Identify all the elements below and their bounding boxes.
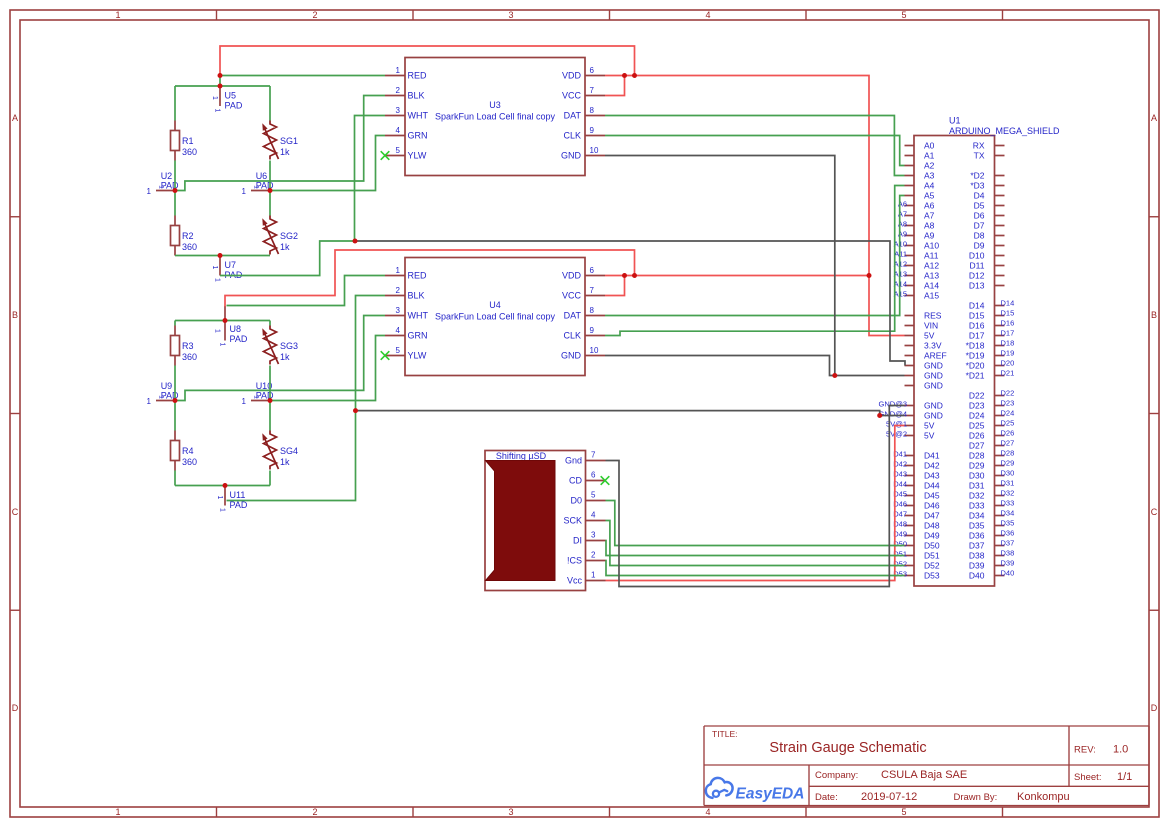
svg-text:D29: D29 — [1001, 459, 1015, 468]
svg-text:D8: D8 — [974, 231, 985, 241]
svg-text:5V: 5V — [924, 421, 935, 431]
wire green: bridge1 right leg upper (SG1) — [269, 86, 271, 191]
op-amp style block U4: SparkFun Load Cell — [385, 258, 605, 376]
svg-text:D24: D24 — [1001, 409, 1015, 418]
svg-text:5: 5 — [901, 10, 906, 20]
U? Shifting uSD card module — [485, 451, 606, 591]
wire green: uSD SCK to shield D52 — [606, 521, 905, 566]
svg-text:7: 7 — [591, 451, 596, 460]
svg-text:D38: D38 — [969, 551, 985, 561]
svg-text:GND@4: GND@4 — [879, 410, 907, 419]
svg-text:D31: D31 — [1001, 479, 1015, 488]
svg-text:A6: A6 — [924, 201, 935, 211]
svg-text:VIN: VIN — [924, 321, 938, 331]
svg-text:CSULA Baja SAE: CSULA Baja SAE — [881, 769, 967, 781]
pin 4 GRN — [385, 335, 405, 337]
wire green: bridge2 left leg lower (R4) — [174, 401, 176, 486]
wire red: top bus U5 to U3 VDD — [220, 46, 635, 76]
svg-text:1: 1 — [211, 266, 218, 270]
uSD pin 6 CD — [586, 480, 606, 482]
strain gauge SG1 (variable resistor) — [262, 121, 298, 160]
svg-text:D52: D52 — [924, 561, 940, 571]
svg-text:360: 360 — [182, 147, 197, 157]
wire green: bridge2 right leg upper (SG3) — [269, 321, 271, 401]
svg-text:D19: D19 — [1001, 349, 1015, 358]
svg-text:D6: D6 — [974, 211, 985, 221]
svg-text:U5: U5 — [225, 91, 237, 101]
svg-text:!CS: !CS — [567, 556, 582, 566]
svg-text:PAD: PAD — [230, 334, 248, 344]
wire green: uSD !CS to shield D53 — [606, 561, 905, 576]
svg-text:1.0: 1.0 — [1113, 744, 1128, 756]
wire green: U4 DAT to shield A5 — [605, 196, 905, 316]
svg-text:5: 5 — [396, 146, 401, 155]
svg-text:A: A — [1151, 113, 1157, 123]
wire green: U5 node to U3 RED pin — [220, 75, 385, 77]
uSD pin 4 SCK — [586, 520, 606, 522]
pad U10 — [242, 381, 274, 406]
junction dots — [218, 73, 223, 78]
svg-text:Date:: Date: — [815, 792, 838, 803]
svg-text:Shifting µSD: Shifting µSD — [496, 451, 547, 461]
svg-text:6: 6 — [590, 66, 595, 75]
svg-text:VDD: VDD — [562, 71, 582, 81]
wire gray: U4 BLK net to shield GND@4 — [356, 411, 905, 416]
svg-text:SparkFun Load Cell final copy: SparkFun Load Cell final copy — [435, 112, 556, 122]
wire gray: U3 GND down to GND junction — [605, 156, 835, 376]
svg-text:D42: D42 — [924, 461, 940, 471]
svg-text:R2: R2 — [182, 231, 194, 241]
svg-text:D40: D40 — [969, 571, 985, 581]
svg-text:A3: A3 — [924, 171, 935, 181]
svg-text:3: 3 — [591, 531, 596, 540]
svg-text:A9: A9 — [924, 231, 935, 241]
svg-text:RES: RES — [924, 311, 942, 321]
svg-text:2: 2 — [591, 551, 596, 560]
svg-text:D49: D49 — [924, 531, 940, 541]
svg-text:3.3V: 3.3V — [924, 341, 942, 351]
pin 1 RED — [385, 275, 405, 277]
svg-text:3: 3 — [396, 106, 401, 115]
svg-text:360: 360 — [182, 457, 197, 467]
wire green: U3 CLK to shield A2 — [605, 136, 905, 166]
svg-text:R4: R4 — [182, 446, 194, 456]
wire green: U3 DAT to shield A3 — [605, 116, 905, 176]
svg-text:D17: D17 — [1001, 329, 1015, 338]
svg-text:A11: A11 — [894, 250, 907, 259]
pin 7 VCC — [585, 295, 605, 297]
no-connect X on uSD CD pin — [601, 476, 610, 485]
svg-text:GND: GND — [924, 401, 943, 411]
svg-text:D11: D11 — [970, 261, 985, 271]
svg-text:R1: R1 — [182, 136, 194, 146]
wire green: uSD DI to shield D51 — [606, 541, 905, 556]
wire red: shield 5V@1 to uSD Vcc — [606, 426, 905, 581]
svg-text:D34: D34 — [969, 511, 985, 521]
svg-text:YLW: YLW — [408, 151, 427, 161]
wire red: U4 VCC join — [605, 276, 625, 296]
pad U6 — [242, 171, 274, 196]
svg-text:A1: A1 — [924, 151, 935, 161]
svg-text:D36: D36 — [1001, 529, 1015, 538]
wire red: U4 bus loop to U8 pad — [225, 250, 635, 307]
svg-text:Gnd: Gnd — [565, 456, 582, 466]
svg-text:1: 1 — [158, 185, 165, 189]
svg-text:6: 6 — [591, 471, 596, 480]
svg-text:WHT: WHT — [408, 111, 429, 121]
pin 3 WHT — [385, 115, 405, 117]
pin 6 VDD — [585, 75, 605, 77]
wire green: U9 to U4 WHT — [175, 316, 385, 401]
svg-text:D31: D31 — [969, 481, 985, 491]
svg-text:5: 5 — [901, 807, 906, 817]
wire green: U6 to U3 GRN — [270, 136, 385, 191]
wire green: bridge1 bottom rail — [175, 255, 270, 257]
no-connect X on U3 pin 5 YLW — [381, 151, 390, 160]
wire green: U3 WHT down to junction — [355, 116, 386, 242]
svg-text:EasyEDA: EasyEDA — [736, 786, 805, 803]
svg-text:D27: D27 — [1001, 439, 1015, 448]
svg-text:D36: D36 — [969, 531, 985, 541]
wire green: uSD D0 to shield D50 — [606, 501, 905, 546]
wire green: bridge1 left leg upper (R1) — [174, 86, 176, 191]
svg-text:D25: D25 — [969, 421, 985, 431]
svg-text:GND: GND — [561, 351, 582, 361]
svg-text:D32: D32 — [1001, 489, 1015, 498]
svg-text:1: 1 — [396, 66, 401, 75]
EasyEDA logo — [706, 778, 805, 803]
svg-text:D33: D33 — [969, 501, 985, 511]
svg-text:A15: A15 — [924, 291, 939, 301]
svg-text:A14: A14 — [924, 281, 939, 291]
svg-text:A0: A0 — [924, 141, 935, 151]
pin 10 GND — [585, 155, 605, 157]
svg-text:8: 8 — [590, 306, 595, 315]
wire gray: uSD Gnd to shield GND@3 — [606, 406, 905, 587]
svg-text:D18: D18 — [1001, 339, 1015, 348]
svg-text:GND: GND — [924, 411, 943, 421]
wire red: U4 VDD bus join — [605, 275, 869, 277]
svg-text:D15: D15 — [1001, 309, 1015, 318]
svg-text:1: 1 — [253, 185, 260, 189]
svg-text:D20: D20 — [1001, 359, 1015, 368]
wire green: bridge1 left leg lower (R2) — [174, 191, 176, 216]
no-connect X on U4 pin 5 YLW — [381, 351, 390, 360]
svg-text:2019-07-12: 2019-07-12 — [861, 791, 917, 803]
pin 9 CLK — [585, 135, 605, 137]
svg-text:PAD: PAD — [230, 500, 248, 510]
svg-text:A11: A11 — [924, 251, 939, 261]
wire red: U3 VDD bus to shield 5V — [605, 76, 905, 336]
svg-text:D12: D12 — [969, 271, 985, 281]
svg-text:Drawn By:: Drawn By: — [954, 792, 998, 803]
svg-text:D22: D22 — [969, 391, 985, 401]
frame row ticks right — [1149, 216, 1159, 218]
svg-text:1: 1 — [214, 109, 221, 113]
svg-text:D9: D9 — [974, 241, 985, 251]
pin 4 GRN — [385, 135, 405, 137]
svg-text:ARDUINO_MEGA_SHIELD: ARDUINO_MEGA_SHIELD — [949, 126, 1060, 136]
pad U11 — [216, 486, 248, 513]
pin 8 DAT — [585, 115, 605, 117]
svg-text:9: 9 — [590, 126, 595, 135]
svg-text:D30: D30 — [1001, 469, 1015, 478]
resistor R3 — [171, 326, 198, 366]
svg-text:1: 1 — [242, 397, 247, 406]
U1 left pins — [905, 145, 915, 147]
wire gray: U4 GND to shield GND — [605, 356, 905, 376]
svg-text:RED: RED — [408, 71, 428, 81]
svg-text:D14: D14 — [1001, 299, 1015, 308]
svg-text:A8: A8 — [924, 221, 935, 231]
svg-text:5: 5 — [396, 346, 401, 355]
uSD pin 1 Vcc — [586, 580, 606, 582]
svg-text:A4: A4 — [924, 181, 935, 191]
svg-text:D34: D34 — [1001, 509, 1015, 518]
svg-text:7: 7 — [590, 86, 595, 95]
svg-text:D37: D37 — [1001, 539, 1015, 548]
svg-text:C: C — [1151, 507, 1158, 517]
svg-text:3: 3 — [508, 807, 513, 817]
svg-text:1: 1 — [396, 266, 401, 275]
svg-text:1: 1 — [211, 96, 218, 100]
svg-text:D5: D5 — [974, 201, 985, 211]
svg-text:SparkFun Load Cell final copy: SparkFun Load Cell final copy — [435, 312, 556, 322]
svg-text:8: 8 — [590, 106, 595, 115]
svg-text:D28: D28 — [969, 451, 985, 461]
svg-text:4: 4 — [591, 511, 596, 520]
pad U8 — [214, 306, 248, 347]
strain gauge SG3 (variable resistor) — [262, 326, 298, 365]
svg-text:D17: D17 — [969, 331, 985, 341]
svg-text:*D2: *D2 — [970, 171, 984, 181]
svg-text:GND: GND — [561, 151, 582, 161]
svg-text:*D19: *D19 — [966, 351, 985, 361]
svg-text:Strain Gauge Schematic: Strain Gauge Schematic — [769, 740, 926, 756]
svg-text:Vcc: Vcc — [567, 576, 583, 586]
uSD pin 3 DI — [586, 540, 606, 542]
svg-text:DAT: DAT — [564, 111, 582, 121]
svg-text:1: 1 — [214, 329, 221, 333]
svg-text:D35: D35 — [1001, 519, 1015, 528]
svg-text:1: 1 — [115, 10, 120, 20]
svg-text:2: 2 — [312, 807, 317, 817]
svg-text:D16: D16 — [1001, 319, 1015, 328]
svg-text:VCC: VCC — [562, 91, 582, 101]
wire green: U4 BLK down to U11 — [227, 296, 386, 501]
svg-text:3: 3 — [396, 306, 401, 315]
pin 10 GND — [585, 355, 605, 357]
svg-text:D40: D40 — [1001, 569, 1015, 578]
svg-text:RED: RED — [408, 271, 428, 281]
svg-text:A: A — [12, 113, 18, 123]
svg-text:5: 5 — [591, 491, 596, 500]
pad U9 — [147, 381, 179, 406]
op-amp style block U3: SparkFun Load Cell — [385, 58, 605, 176]
pin 1 RED — [385, 75, 405, 77]
svg-text:D10: D10 — [969, 251, 985, 261]
svg-text:D28: D28 — [1001, 449, 1015, 458]
svg-text:1: 1 — [242, 187, 247, 196]
svg-text:Konkompu: Konkompu — [1017, 791, 1070, 803]
svg-text:D22: D22 — [1001, 389, 1015, 398]
pad U7 — [211, 256, 243, 283]
svg-text:D51: D51 — [924, 551, 940, 561]
svg-text:D26: D26 — [1001, 429, 1015, 438]
svg-text:D13: D13 — [969, 281, 985, 291]
wire green: bridge2 left leg upper (R3) — [174, 321, 176, 401]
svg-text:4: 4 — [705, 807, 710, 817]
wire green: bridge1 top rail — [175, 85, 270, 87]
svg-text:D15: D15 — [969, 311, 985, 321]
svg-text:TX: TX — [974, 151, 985, 161]
svg-text:CD: CD — [569, 476, 582, 486]
resistor R2 — [171, 216, 198, 256]
svg-text:U11: U11 — [230, 490, 246, 500]
svg-text:D41: D41 — [924, 451, 940, 461]
svg-text:D26: D26 — [969, 431, 985, 441]
svg-text:1: 1 — [158, 395, 165, 399]
wire green: U4 CLK to shield A4 — [605, 186, 905, 336]
svg-text:GND: GND — [924, 361, 943, 371]
svg-text:SG1: SG1 — [280, 136, 298, 146]
svg-text:D23: D23 — [969, 401, 985, 411]
svg-text:6: 6 — [590, 266, 595, 275]
svg-text:10: 10 — [590, 346, 599, 355]
svg-text:A2: A2 — [924, 161, 935, 171]
svg-text:1: 1 — [253, 395, 260, 399]
title block — [704, 726, 1149, 806]
svg-text:D35: D35 — [969, 521, 985, 531]
wire green: bridge2 top rail — [175, 320, 270, 322]
svg-text:B: B — [1151, 310, 1157, 320]
svg-text:D50: D50 — [924, 541, 940, 551]
wire green: bridge2 right leg lower (SG4) — [269, 401, 271, 486]
svg-text:9: 9 — [590, 326, 595, 335]
svg-text:1: 1 — [216, 496, 223, 500]
svg-text:SG2: SG2 — [280, 231, 298, 241]
svg-text:R3: R3 — [182, 341, 194, 351]
svg-text:1: 1 — [214, 278, 221, 282]
frame column ticks bottom — [216, 807, 218, 817]
svg-text:D25: D25 — [1001, 419, 1015, 428]
svg-text:1k: 1k — [280, 147, 290, 157]
svg-text:4: 4 — [396, 326, 401, 335]
svg-text:U7: U7 — [225, 260, 237, 270]
svg-text:1: 1 — [115, 807, 120, 817]
svg-text:GND: GND — [924, 381, 943, 391]
svg-text:D21: D21 — [1001, 369, 1015, 378]
svg-text:D: D — [12, 703, 19, 713]
svg-text:5V: 5V — [924, 431, 935, 441]
svg-text:GND: GND — [924, 371, 943, 381]
svg-text:VCC: VCC — [562, 291, 582, 301]
svg-text:*D20: *D20 — [966, 361, 985, 371]
svg-text:2: 2 — [312, 10, 317, 20]
svg-text:3: 3 — [508, 10, 513, 20]
svg-text:1k: 1k — [280, 352, 290, 362]
svg-text:1: 1 — [591, 571, 596, 580]
svg-text:A5: A5 — [924, 191, 935, 201]
svg-text:DI: DI — [573, 536, 582, 546]
wire green: U5 junction drop — [219, 76, 221, 87]
svg-text:D47: D47 — [924, 511, 940, 521]
wire green: bridge2 bottom rail — [175, 485, 270, 487]
svg-text:A10: A10 — [924, 241, 939, 251]
svg-text:D39: D39 — [1001, 559, 1015, 568]
wire green: U10 to U4 GRN — [270, 336, 385, 401]
svg-text:1: 1 — [147, 397, 152, 406]
svg-text:BLK: BLK — [408, 291, 425, 301]
uSD pin 5 D0 — [586, 500, 606, 502]
svg-text:GRN: GRN — [408, 331, 428, 341]
svg-text:D: D — [1151, 703, 1158, 713]
pin 6 VDD — [585, 275, 605, 277]
svg-text:Sheet:: Sheet: — [1074, 772, 1101, 783]
wire green: U2 to U3 BLK — [175, 96, 385, 191]
svg-text:PAD: PAD — [225, 101, 243, 111]
U1 right pins — [995, 145, 1005, 147]
svg-text:1/1: 1/1 — [1117, 771, 1132, 783]
resistor R4 — [171, 431, 198, 471]
svg-text:*D3: *D3 — [970, 181, 984, 191]
frame column ticks top — [216, 10, 218, 20]
svg-text:D46: D46 — [924, 501, 940, 511]
svg-text:B: B — [12, 310, 18, 320]
svg-text:D29: D29 — [969, 461, 985, 471]
svg-text:1: 1 — [219, 343, 226, 347]
svg-text:D30: D30 — [969, 471, 985, 481]
svg-text:1: 1 — [219, 508, 226, 512]
svg-text:D0: D0 — [570, 496, 582, 506]
svg-text:D38: D38 — [1001, 549, 1015, 558]
svg-text:2: 2 — [396, 286, 401, 295]
U1 ARDUINO_MEGA_SHIELD body — [914, 136, 995, 587]
pin 3 WHT — [385, 315, 405, 317]
svg-text:1: 1 — [147, 187, 152, 196]
svg-text:D23: D23 — [1001, 399, 1015, 408]
svg-text:*D18: *D18 — [966, 341, 985, 351]
svg-text:D43: D43 — [924, 471, 940, 481]
svg-text:D16: D16 — [969, 321, 985, 331]
pad U2 — [147, 171, 179, 196]
svg-text:U1: U1 — [949, 116, 961, 126]
wire green: U4 RED pin loop to U8 — [227, 276, 386, 306]
svg-text:C: C — [12, 507, 19, 517]
svg-text:360: 360 — [182, 352, 197, 362]
svg-text:2: 2 — [396, 86, 401, 95]
pin 8 DAT — [585, 315, 605, 317]
pin 5 YLW — [385, 155, 405, 157]
strain gauge SG2 (variable resistor) — [262, 216, 298, 255]
svg-text:10: 10 — [590, 146, 599, 155]
pin 7 VCC — [585, 95, 605, 97]
pad U5 — [211, 86, 243, 113]
wire gray: WHT/U7 net to shield GND — [355, 241, 905, 366]
svg-text:BLK: BLK — [408, 91, 425, 101]
svg-text:U4: U4 — [489, 300, 501, 310]
svg-text:DAT: DAT — [564, 311, 582, 321]
svg-text:REV:: REV: — [1074, 745, 1096, 756]
svg-text:D4: D4 — [974, 191, 985, 201]
pin 5 YLW — [385, 355, 405, 357]
svg-text:U3: U3 — [489, 100, 501, 110]
svg-text:*D21: *D21 — [966, 371, 985, 381]
strain gauge SG4 (variable resistor) — [262, 431, 298, 470]
svg-text:7: 7 — [590, 286, 595, 295]
svg-text:D53: D53 — [924, 571, 940, 581]
svg-text:TITLE:: TITLE: — [712, 729, 738, 739]
